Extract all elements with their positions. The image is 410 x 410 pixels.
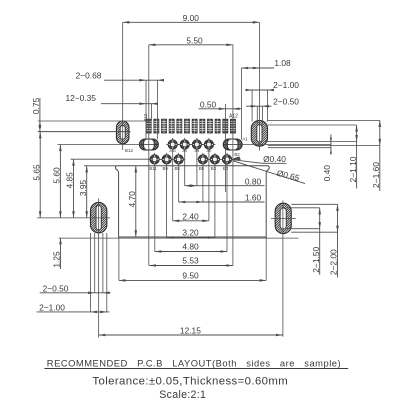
centerline upper-right oval vertical (9.00 ext) [258,22,260,150]
dim 12.15 [99,334,283,337]
horizontal line 0.75 upper (oval inner top ext) [38,120,151,122]
horizontal centerline small ovals ext left (5.60 ref) [58,144,141,146]
extension line 1.08 (right small oval edge) [241,68,243,140]
svg-text:0.40: 0.40 [322,165,332,182]
oval pad right (A1) [206,138,258,151]
dim 5.60 [59,145,62,218]
svg-text:A12: A12 [229,114,238,120]
through-hole pad lower row 6 [221,153,234,166]
svg-text:5.50: 5.50 [186,35,203,45]
dim 0.75 [39,121,42,132]
svg-text:4.80: 4.80 [182,242,199,252]
ref line 0.40 lower ref [268,147,331,149]
dim 5.50 [149,44,233,47]
through-hole pad upper row 2 [178,138,191,151]
svg-text:9.50: 9.50 [182,271,199,281]
smd pad 3 [162,119,167,133]
svg-text:Tolerance:±0.05,Thickness=0.60: Tolerance:±0.05,Thickness=0.60mm [92,375,287,387]
title underline [44,368,348,370]
svg-text:2−1.60: 2−1.60 [371,162,381,188]
extension lines 2-0.68 / 12-0.35 (pad and oval edges) [146,80,157,139]
svg-text:Ø0.40: Ø0.40 [263,154,286,164]
smd pad 4 [169,119,174,133]
dim 3.95 [85,166,88,218]
svg-text:B11: B11 [149,166,157,171]
svg-text:2−1.00: 2−1.00 [39,303,65,313]
leader diameter 0.40 (drill) [231,157,287,164]
smd pad 5 [177,119,182,133]
extension pad11 vertical (0.50) [224,104,226,192]
ref line right oval outer-top ext (2-1.60) [268,119,380,121]
through-hole pad upper row 4 [202,138,215,151]
dim 2-0.68 [104,79,164,82]
centerline upper-left oval vertical (9.00 ext) [122,22,124,150]
smd pad 7 [192,119,197,133]
svg-text:RECOMMENDED P.C.B LAYOUT(Both: RECOMMENDED P.C.B LAYOUT(Both sides are … [47,357,341,368]
leg lines lower-left oval outer (2-1.00) [91,233,107,312]
svg-text:1.25: 1.25 [52,251,62,268]
svg-text:0.80: 0.80 [245,176,262,186]
smd pad 2 [154,119,159,133]
shell leg oval lower-right (hatched) [244,202,380,235]
dim 1.08 [242,67,275,70]
svg-text:2−1.10: 2−1.10 [348,156,358,182]
dim 4.70 [135,166,138,237]
svg-text:4.70: 4.70 [127,191,137,208]
dim 4.85 [72,159,75,218]
smd pad 8 [200,119,205,133]
dim 2-1.00 top [246,89,275,92]
dim 9.00 [123,21,260,24]
dim 2-0.50 bottom-left [40,292,111,295]
extension lines 3.20 (lower middle pads) [167,164,215,238]
horizontal centerline lower pad row ext left (4.85 ref) [71,158,152,160]
dim 0.80 [185,184,265,187]
svg-text:2−0.68: 2−0.68 [76,70,102,80]
smd pad 12 [230,119,235,133]
svg-text:2−0.50: 2−0.50 [43,284,69,294]
svg-text:Scale:2:1: Scale:2:1 [159,389,206,401]
centerline lower-right oval horizontal [271,217,296,219]
dim 5.65 [39,132,42,218]
extension lines 0.80 (upper inner pads) [185,149,197,186]
shell hole upper-right (hatched oval) [225,119,347,147]
extension pad1/small-oval-left vertical (5.50/5.53) [148,45,150,266]
svg-text:3.20: 3.20 [182,228,199,238]
shell leg oval lower-left (hatched) [59,201,195,234]
svg-text:9.00: 9.00 [183,13,200,23]
svg-text:2−2.00: 2−2.00 [329,249,339,275]
smd pad 6 [185,119,190,133]
smd pad 10 [215,119,220,133]
svg-text:B12: B12 [143,113,148,121]
svg-text:4.85: 4.85 [65,172,75,189]
svg-text:12−0.35: 12−0.35 [65,93,96,103]
extension lines 9.50 (body edges) [119,237,266,280]
centerline lower-left oval horizontal [37,217,110,219]
dim 4.80 [155,250,227,253]
svg-text:2−0.50: 2−0.50 [273,96,299,106]
connector body outline [116,166,270,237]
dim 2-1.00 bottom-left [37,311,110,314]
svg-text:5.60: 5.60 [52,167,62,184]
extension lines 2.40 (upper outer pads) [173,149,209,221]
dim 5.53 [149,264,233,267]
dim 1.60 [179,201,265,204]
centerline lower-right oval vertical (12.15 ext) [282,201,284,337]
svg-text:2−1.00: 2−1.00 [273,80,299,90]
extension lines upper-right oval width (2-1.00 outer) [252,90,267,122]
svg-text:2.40: 2.40 [182,211,199,221]
dim 2-2.00 [336,204,339,277]
dim 0.50 [199,108,242,111]
extension lines upper-right oval hole (2-0.50 inner) [257,106,262,124]
dim 0.40 right [330,134,332,154]
extension lines 1.60 (lower inner pads) [179,164,203,202]
svg-text:B9: B9 [163,166,169,171]
smd pad 11 [223,119,228,133]
svg-text:3.95: 3.95 [78,180,88,197]
svg-text:1.60: 1.60 [245,193,262,203]
centerline lower-left oval vertical (12.15 ext) [98,199,100,338]
svg-text:A1: A1 [242,137,248,142]
leg lines lower-left oval inner (2-0.50) [95,233,103,293]
dim 0.75 underline extension [39,98,41,121]
through-hole pad upper row 3 [190,138,203,151]
extension pad12/small-oval-right vertical (5.50/5.53) [232,45,234,266]
through-hole pad lower row 3 [172,153,185,166]
dim 2-1.10 [355,125,358,189]
through-hole pad lower row 4 [196,153,209,166]
connector lines lower-right oval outer top/bottom (2-2.00) [291,204,337,232]
smd pad 9 [207,119,212,133]
dim 3.20 [167,236,215,239]
svg-text:12.15: 12.15 [180,325,201,335]
extension lines 4.80 (lower outer pads) [155,164,227,252]
dim 9.50 [119,279,266,282]
oval pad left (B12) [122,138,174,151]
ref line right oval outer-bottom ext (2-1.60) [268,145,380,147]
shell hole upper-left (hatched oval) [93,120,198,145]
svg-text:B5: B5 [199,166,205,171]
ref line right oval inner-bottom ext (2-1.10) [265,141,357,143]
svg-text:1.08: 1.08 [274,58,291,68]
connector lines lower-right oval inner top/bottom (2-1.50) [287,208,320,229]
leader diameter 0.65 (pad) [233,156,306,183]
dim 2-1.60 [379,120,382,191]
svg-text:B8: B8 [175,166,181,171]
svg-text:B3: B3 [211,166,217,171]
svg-text:B12: B12 [125,148,134,153]
dim 2-1.50 [318,208,321,275]
through-hole pad lower row 5 [208,153,221,166]
ref line right oval inner-top ext (2-1.10) [265,124,357,126]
seating plane line [59,237,299,239]
svg-text:5.53: 5.53 [182,256,199,266]
through-hole pad lower row 2 [160,153,173,166]
svg-text:0.50: 0.50 [200,99,217,109]
ref line small-oval centerline ext right (0.40) [236,144,331,146]
dim 2.40 [173,220,209,223]
svg-text:0.75: 0.75 [31,98,41,115]
dim 2-0.50 top [246,105,272,108]
horizontal line body top ext left (3.95 ref) [84,165,116,167]
dim 1.25 [59,238,62,269]
horizontal centerline upper-left oval [38,131,131,133]
dim 12-0.35 [101,102,158,105]
svg-text:5.65: 5.65 [31,164,41,181]
through-hole pad lower row 1 [148,153,161,166]
through-hole pad upper row 1 [166,138,179,151]
smd pad B12 [146,119,151,133]
svg-text:2−1.50: 2−1.50 [311,247,321,273]
svg-text:B2: B2 [234,152,240,157]
